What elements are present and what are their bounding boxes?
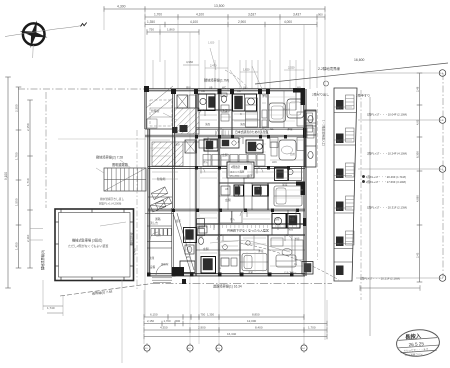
- top dimension row 2: [145, 12, 325, 19]
- svg-text:1階FL+17・・・20.31F (2.13M): 1階FL+17・・・20.31F (2.13M): [367, 206, 407, 210]
- top dimension row 3: [145, 20, 317, 27]
- unit bath pod C: [234, 185, 244, 196]
- svg-text:3,637: 3,637: [248, 13, 256, 17]
- mid band pod: [246, 140, 263, 153]
- svg-text:8,400: 8,400: [255, 326, 263, 330]
- right dashed boundary: [360, 90, 362, 300]
- svg-text:共用廊下がなくなったら入監区: 共用廊下がなくなったら入監区: [227, 228, 269, 233]
- top dimension row 4: [147, 28, 199, 35]
- svg-text:設備: 設備: [150, 265, 156, 269]
- bicycle slanted box lower: [150, 200, 166, 212]
- door leaves: [201, 110, 296, 241]
- annex strip outline: [334, 88, 357, 281]
- Y grid circle Y-3: [439, 70, 446, 77]
- wall tie marks: [55, 209, 134, 281]
- svg-text:4,960: 4,960: [186, 60, 193, 64]
- labeled unit box center: [227, 162, 254, 178]
- svg-text:UB: UB: [225, 188, 229, 191]
- toilet A: [221, 96, 226, 103]
- X grid circle X-3: [216, 345, 222, 351]
- svg-text:WC: WC: [222, 87, 226, 90]
- svg-text:管理室: 管理室: [151, 109, 160, 113]
- ev dark fill: [180, 125, 188, 132]
- svg-text:押入: 押入: [230, 217, 236, 221]
- vertical grid/extension lines: [104, 9, 325, 344]
- svg-text:洋室: 洋室: [248, 270, 254, 274]
- bicycle parking slants: [151, 187, 172, 210]
- boundary diagonal bottom-left: [60, 284, 152, 297]
- svg-text:500: 500: [176, 319, 181, 323]
- svg-text:2,43: 2,43: [415, 252, 419, 258]
- svg-text:物入: 物入: [337, 174, 342, 178]
- svg-text:(FL+450): (FL+450): [230, 176, 239, 178]
- right dimension line: [415, 73, 422, 282]
- svg-text:UB: UB: [209, 87, 213, 90]
- svg-text:2,150: 2,150: [147, 319, 154, 323]
- svg-text:1,700: 1,700: [14, 152, 18, 160]
- svg-text:1階FL+17・・・20.21F (2.16M): 1階FL+17・・・20.21F (2.16M): [360, 277, 400, 281]
- svg-text:電気室: 電気室: [161, 262, 169, 266]
- svg-text:4,000: 4,000: [284, 20, 292, 24]
- bottom dimension row 2: [144, 319, 327, 326]
- svg-text:CL: CL: [270, 127, 274, 131]
- Y grid ticks: [356, 73, 439, 278]
- svg-text:台所: 台所: [290, 152, 296, 156]
- svg-text:2-2隣地境界線: 2-2隣地境界線: [318, 66, 340, 71]
- dark cluster right of center: [275, 167, 302, 181]
- svg-text:1,700: 1,700: [154, 13, 162, 17]
- faint smudge line: [58, 138, 146, 140]
- svg-text:廊下: 廊下: [176, 219, 182, 223]
- svg-text:UB: UB: [201, 89, 205, 93]
- svg-text:1,430: 1,430: [133, 248, 137, 255]
- corridor entry ticks: [216, 131, 232, 137]
- svg-text:2,48: 2,48: [415, 86, 419, 92]
- svg-text:2,300: 2,300: [14, 104, 18, 112]
- svg-text:3,437: 3,437: [293, 13, 301, 17]
- svg-text:洗面: 洗面: [288, 227, 294, 231]
- left dimension column 2: [14, 87, 21, 268]
- bottom dimension row 3: [144, 326, 327, 333]
- Y grid circle Y-1: [439, 275, 446, 282]
- ramp hatch mid: [152, 142, 183, 166]
- entry dark box: [180, 261, 195, 273]
- annex inner lines: [334, 107, 352, 244]
- svg-text:2,020: 2,020: [288, 66, 295, 70]
- closet row mid band: [203, 155, 265, 167]
- svg-text:750: 750: [149, 28, 154, 32]
- manager room top-left: [146, 86, 173, 128]
- closet mid: [220, 211, 232, 223]
- svg-text:1階FL+17・・・10.04F (2.10M): 1階FL+17・・・10.04F (2.10M): [367, 113, 407, 117]
- Y grid circle Y-2: [439, 117, 446, 124]
- svg-text:台所: 台所: [156, 233, 162, 237]
- wall x=172 lower: [171, 208, 173, 276]
- corridor railing ticks: [198, 225, 301, 228]
- washer/WC stack: [221, 105, 304, 127]
- bicycle port left of building: [150, 100, 172, 126]
- entrance arc: [156, 264, 167, 275]
- door swing arcs: [199, 110, 292, 241]
- annex small rooms: [346, 95, 355, 245]
- extension comb above building: [153, 60, 310, 89]
- svg-text:MB: MB: [297, 87, 301, 90]
- bottom extension lines: [43, 280, 327, 363]
- svg-text:洗面: 洗面: [205, 122, 211, 126]
- elevator shaft: [185, 140, 196, 153]
- extra furniture mid right room: [270, 138, 278, 148]
- svg-text:流し台: 流し台: [150, 221, 158, 225]
- svg-text:日本式調査のための入監区: 日本式調査のための入監区: [235, 130, 269, 134]
- svg-text:16,340: 16,340: [227, 332, 237, 336]
- svg-text:隣地境界線(1.7M): 隣地境界線(1.7M): [204, 78, 229, 83]
- leader lines near stair: [120, 160, 131, 168]
- svg-text:ユニット設置: ユニット設置: [230, 170, 245, 174]
- svg-text:UB: UB: [256, 188, 260, 191]
- svg-text:階段: 階段: [186, 86, 192, 90]
- svg-text:2階浴室: 2階浴室: [231, 165, 241, 169]
- svg-text:6,150: 6,150: [150, 313, 158, 317]
- svg-text:4,300: 4,300: [117, 5, 126, 9]
- stair hatch lower: [175, 108, 200, 134]
- north leader line: [5, 26, 82, 37]
- svg-text:WC: WC: [199, 236, 203, 239]
- unit bath pod D: [253, 185, 269, 196]
- svg-text:玄関: 玄関: [203, 247, 209, 251]
- svg-text:4,350: 4,350: [160, 326, 168, 330]
- main building outline: [145, 89, 306, 276]
- dash-dot line x137: [136, 130, 138, 290]
- svg-text:隣地境界線(3): 隣地境界線(3): [40, 250, 45, 270]
- X grid circle X-4: [301, 345, 307, 351]
- dark pod at wall: [172, 127, 178, 133]
- large rounded mats upper right: [269, 99, 304, 122]
- svg-text:2,900: 2,900: [238, 20, 246, 24]
- bed lower room: [242, 254, 267, 271]
- svg-text:1,820: 1,820: [243, 68, 250, 72]
- column posts along walls: [147, 135, 299, 277]
- svg-text:16,600: 16,600: [354, 58, 364, 62]
- svg-text:洗面: 洗面: [289, 217, 295, 221]
- svg-text:9,100: 9,100: [4, 172, 8, 180]
- svg-text:廊下: 廊下: [247, 174, 253, 178]
- boundary line top-left: [18, 88, 148, 90]
- svg-text:900: 900: [318, 12, 323, 16]
- svg-text:LDK: LDK: [272, 161, 277, 164]
- svg-text:4,100: 4,100: [196, 13, 204, 17]
- svg-text:敷地境界線(2) 7.28: 敷地境界線(2) 7.28: [96, 155, 123, 160]
- svg-text:洋室: 洋室: [287, 127, 293, 131]
- interior horizontal walls: [145, 109, 305, 262]
- svg-text:13,500: 13,500: [214, 4, 224, 8]
- svg-text:1,860: 1,860: [167, 28, 175, 32]
- svg-text:1,350: 1,350: [147, 20, 155, 24]
- svg-text:UB: UB: [243, 87, 247, 90]
- Y grid circle Y-2: [439, 166, 446, 173]
- scattered leader lines: [163, 48, 290, 252]
- svg-text:1,700: 1,700: [164, 319, 171, 323]
- parking room outer wall: [55, 209, 134, 281]
- horizontal walls lower-left: [145, 213, 174, 215]
- svg-text:洋室: 洋室: [294, 237, 300, 241]
- svg-text:浴室: 浴室: [274, 217, 280, 221]
- svg-text:2,150: 2,150: [26, 123, 30, 131]
- boundary line left vertical: [45, 92, 47, 208]
- svg-text:道路境界線(1) 16.34: 道路境界線(1) 16.34: [213, 284, 242, 289]
- sofa lower right: [276, 255, 296, 267]
- unit bath pod E: [272, 214, 300, 229]
- closet strip: [246, 98, 258, 127]
- kitchen mid: [220, 138, 239, 148]
- svg-text:機械式駐車場 (3段式): 機械式駐車場 (3段式): [72, 238, 102, 243]
- leader to parking: [100, 222, 126, 226]
- svg-text:洋室: 洋室: [282, 183, 288, 187]
- extra furniture bottom right room: [271, 238, 303, 260]
- closet top right: [297, 138, 305, 151]
- right small box lower: [302, 262, 313, 275]
- fine detail lines: [150, 95, 304, 266]
- svg-text:1,740: 1,740: [47, 306, 55, 310]
- internal staircase with X box: [177, 95, 196, 108]
- svg-text:WC: WC: [186, 255, 190, 259]
- svg-text:12,000: 12,000: [247, 319, 257, 323]
- right overhang rooms: [305, 111, 317, 135]
- svg-text:2階せり出し: 2階せり出し: [312, 92, 329, 97]
- svg-text:押入: 押入: [203, 160, 209, 164]
- right solid boundary: [369, 97, 371, 336]
- tatami lines: [246, 97, 303, 272]
- svg-text:倉庫: 倉庫: [149, 256, 155, 260]
- svg-text:2,900: 2,900: [198, 326, 206, 330]
- svg-text:2,110: 2,110: [26, 234, 30, 242]
- svg-text:1,350: 1,350: [207, 313, 214, 317]
- svg-text:隣地境界線: 隣地境界線: [130, 232, 134, 246]
- svg-text:目安FL+1 (4,2008): 目安FL+1 (4,2008): [99, 202, 121, 206]
- svg-text:物入: 物入: [337, 106, 342, 110]
- pod mid-left: [204, 139, 218, 151]
- svg-text:1,820: 1,820: [208, 42, 215, 45]
- external staircase: [104, 168, 146, 191]
- svg-text:1・2階非常用進入口: 1・2階非常用進入口: [322, 120, 326, 146]
- small fixtures row 2: [199, 140, 250, 266]
- svg-text:ベッド: ベッド: [283, 107, 291, 111]
- top wall inner line: [196, 93, 268, 95]
- pod cluster left-lower: [184, 228, 197, 255]
- X grid circle X-1: [144, 345, 150, 351]
- left dimension column 1: [4, 77, 11, 288]
- svg-text:2階手すり: 2階手すり: [356, 93, 370, 98]
- right bump toilet rooms: [305, 110, 316, 167]
- svg-text:物入: 物入: [337, 207, 342, 211]
- svg-text:1,550: 1,550: [14, 198, 18, 206]
- svg-text:1,700: 1,700: [308, 326, 316, 330]
- top dimension row 1: [104, 4, 325, 12]
- svg-text:排水管横引きし直し: 排水管横引きし直し: [100, 197, 124, 201]
- kitchenette row: [151, 229, 171, 236]
- svg-text:玄関: 玄関: [225, 198, 231, 202]
- svg-text:4,100: 4,100: [190, 20, 198, 24]
- svg-text:通路: 通路: [155, 217, 161, 221]
- bed mid-right room: [274, 186, 302, 206]
- svg-text:EV: EV: [176, 143, 180, 147]
- svg-text:750: 750: [201, 313, 206, 317]
- svg-text:8,850: 8,850: [252, 313, 260, 317]
- ramp diagonals lower-left: [173, 213, 194, 273]
- dark wall fills: [144, 86, 307, 284]
- unit bath pod B: [233, 94, 257, 111]
- svg-text:1,710: 1,710: [26, 178, 30, 186]
- svg-text:UB: UB: [237, 89, 241, 93]
- corridor pods x196-219: [197, 219, 205, 245]
- annex dark fixtures: [336, 100, 344, 275]
- svg-text:押入: 押入: [247, 160, 253, 164]
- boundary diagonal top-right: [255, 63, 448, 84]
- dashed leader curve: [240, 243, 339, 280]
- Y grid line: [442, 73, 444, 278]
- svg-text:物入: 物入: [337, 139, 342, 143]
- approval stamp: [396, 328, 441, 357]
- svg-text:2,470: 2,470: [210, 64, 217, 68]
- svg-text:2階FL+17・・・10.24F (4.10M): 2階FL+17・・・10.24F (4.10M): [367, 152, 407, 156]
- X grid circle X-2: [187, 345, 193, 351]
- interior vertical walls: [175, 91, 296, 276]
- svg-text:ただし2階がなくてもよい装置: ただし2階がなくてもよい装置: [68, 243, 108, 248]
- bottom dimension row 4: [144, 332, 327, 339]
- entrance steps: [152, 278, 172, 283]
- svg-text:洗濯: 洗濯: [222, 109, 228, 113]
- svg-text:洋室: 洋室: [262, 94, 268, 98]
- svg-text:物入: 物入: [337, 242, 342, 246]
- svg-text:洗面: 洗面: [240, 122, 246, 126]
- svg-text:1,450: 1,450: [14, 242, 18, 250]
- svg-text:6,300: 6,300: [415, 151, 419, 158]
- road boundary bottom: [152, 283, 332, 285]
- svg-text:2階FL+17・・・17.66F (3.10M): 2階FL+17・・・17.66F (3.10M): [366, 180, 406, 184]
- unit bath pod A: [198, 94, 215, 111]
- compass symbol: [17, 17, 51, 58]
- small dim marks above building: [205, 68, 304, 72]
- bottom dimension row 1: [144, 313, 304, 320]
- svg-text:バルコニー: バルコニー: [284, 270, 297, 274]
- svg-text:玄関: 玄関: [222, 153, 228, 157]
- rounded mat mid right: [271, 140, 296, 160]
- unit bath pod F: [201, 257, 216, 274]
- svg-text:1階FL+17・・・20.46F (1.71M): 1階FL+17・・・20.46F (1.71M): [366, 175, 406, 179]
- svg-text:4,880: 4,880: [415, 195, 419, 202]
- left dimension column 3: [26, 100, 33, 268]
